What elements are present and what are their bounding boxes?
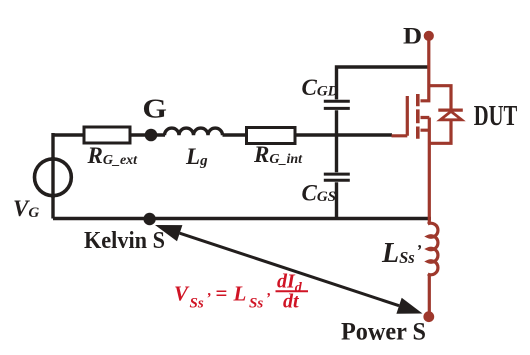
svg-text:VSs’=LSs’: VSs’=LSs’ xyxy=(174,281,271,312)
svg-text:Kelvin S: Kelvin S xyxy=(84,228,165,254)
svg-text:RG_int: RG_int xyxy=(253,142,303,167)
svg-text:DUT: DUT xyxy=(474,101,518,132)
svg-text:Power S: Power S xyxy=(341,319,426,346)
svg-text:G: G xyxy=(142,95,167,124)
svg-text:CGD: CGD xyxy=(302,75,339,100)
svg-text:Lg: Lg xyxy=(185,144,208,169)
svg-text:VG: VG xyxy=(13,196,39,221)
svg-text:D: D xyxy=(403,24,422,49)
svg-text:dt: dt xyxy=(283,291,300,313)
svg-text:LSs ’: LSs ’ xyxy=(381,238,422,269)
svg-text:RG_ext: RG_ext xyxy=(87,143,139,168)
svg-text:CGS: CGS xyxy=(302,181,337,206)
